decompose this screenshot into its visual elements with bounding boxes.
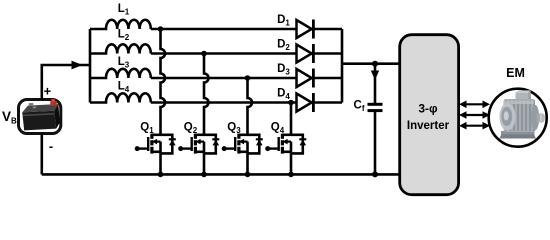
Q1 source lead to rail [159,153,162,174]
Q4 source lead to rail [290,153,293,174]
Q2 body arrow [199,141,204,143]
svg-text:3-φ: 3-φ [418,101,438,115]
wire D1 cathode to output bus [313,28,342,31]
wire negative rail [42,173,402,176]
Q4 body arrow [286,141,291,143]
capacitor Cf [368,104,383,110]
node L3/Q3 junction [245,75,251,81]
wire L4 output to D4 anode [151,101,297,104]
node L2/Q2 junction [201,51,207,57]
Q1 body arrow [156,141,161,143]
Q4 source stub [282,151,291,154]
current arrow on input feed [72,61,83,70]
inductor L4 [90,93,151,102]
node Q4 source on rail [288,172,294,178]
wire battery positive lead [42,65,90,100]
Q1 body/source tie [159,142,162,154]
wire Q1 drain riser with wire hops [161,29,166,135]
transistor Q3 (N-MOSFET with body diode) [222,134,263,175]
Q2 source lead to rail [203,153,206,174]
Q3 body diode loop [248,135,260,154]
current arrow into capacitor [371,71,379,81]
phase arrow 2 (inverter to EM) [459,111,490,119]
Q2 body/source tie [203,142,206,154]
wire Q2 drain riser with wire hops [204,54,209,135]
Q1 body diode symbol [169,138,176,140]
diode D3 [297,69,314,88]
Q1 channel bar (3 segments) [150,134,153,139]
EM motor art [500,90,545,138]
wire D3 cathode to output bus [313,77,342,80]
Q2 body diode symbol [212,138,219,140]
Q3 gate terminal dot [222,146,227,151]
phase arrow 1 (inverter to EM) [459,101,490,109]
Q1 body diode loop [161,135,173,154]
Q3 body diode symbol [256,138,263,140]
transistor Q4 (N-MOSFET with body diode) [265,134,306,175]
node capacitor top junction [372,61,378,67]
wire Q3 drain riser with wire hops [248,78,253,135]
battery VB box [19,99,61,134]
wire L3 output to D3 anode [151,77,297,80]
inductor L3 [90,69,151,78]
diode D4 [297,93,314,112]
Q4 channel bar (3 segments) [281,134,284,139]
Q4 body diode loop [291,135,303,154]
Q3 gate lead [224,147,235,149]
diode D1 [297,20,314,39]
svg-text:+: + [44,84,52,99]
Q1 source stub [152,151,161,154]
phase arrow 3 (inverter to EM) [459,122,490,130]
Q1 gate bar [147,137,149,151]
wire battery negative lead [40,133,43,174]
Q3 body/source tie [246,142,249,154]
Q4 body diode symbol [299,138,306,140]
node L1/Q1 junction [158,26,164,32]
Q2 gate bar [190,137,192,151]
node Q2 source on rail [201,172,207,178]
inductor L2 [90,44,151,53]
Q1 gate terminal dot [135,146,140,151]
Q2 gate terminal dot [178,146,183,151]
wire L2 output to D2 anode [151,52,297,55]
inductor L1 [90,20,151,29]
Q3 channel bar (3 segments) [237,134,240,139]
transistor Q2 (N-MOSFET with body diode) [178,134,219,175]
Q3 gate bar [234,137,236,151]
Q4 body/source tie [290,142,293,154]
Q2 gate lead [181,147,192,149]
wire D4 cathode to output bus [313,101,342,104]
wire L1 output to D1 anode [151,28,297,31]
Q4 drain stub [282,134,291,137]
wire Q4 drain riser with wire hops [290,103,293,135]
svg-text:EM: EM [506,66,525,80]
Q3 drain stub [239,134,248,137]
node input bus (left vertical) [89,29,92,103]
wire D2 cathode to output bus [313,52,342,55]
transistor Q1 (N-MOSFET with body diode) [135,134,176,175]
Q3 source lead to rail [246,153,249,174]
wire DC link to inverter [342,62,402,65]
wire capacitor bottom lead [374,111,377,175]
Q2 source stub [195,151,204,154]
Q4 gate terminal dot [265,146,270,151]
EM machine circle [489,89,547,147]
inverter U1 (3-phase) [400,35,459,195]
Q3 source stub [239,151,248,154]
Q2 body diode loop [204,135,216,154]
node Q1 source on rail [158,172,164,178]
node capacitor on rail [372,171,378,177]
node output bus (right vertical) [341,29,344,103]
node Q3 source on rail [245,172,251,178]
svg-text:Inverter: Inverter [407,120,450,132]
Q2 drain stub [195,134,204,137]
Q2 channel bar (3 segments) [194,134,197,139]
svg-text:-: - [49,139,53,154]
Q1 gate lead [137,147,148,149]
Q4 gate lead [268,147,279,149]
diode D2 [297,44,314,63]
wire capacitor top lead [374,64,377,105]
Q1 drain stub [152,134,161,137]
node L4/Q4 junction [288,100,294,106]
Q4 gate bar [278,137,280,151]
Q3 body arrow [243,141,248,143]
